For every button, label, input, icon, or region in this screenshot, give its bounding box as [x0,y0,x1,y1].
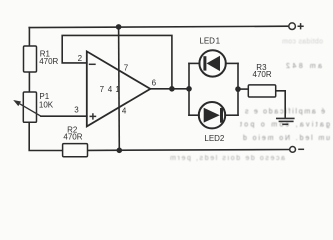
svg-text:4: 4 [122,106,127,115]
svg-text:4: 4 [108,85,113,94]
svg-text:LED: LED [199,37,215,46]
svg-text:2: 2 [220,134,225,143]
svg-text:470R: 470R [63,133,82,142]
svg-text:LED: LED [204,134,220,143]
svg-text:um led. No meio d: um led. No meio d [243,135,330,142]
svg-text:1: 1 [115,85,120,94]
svg-text:7: 7 [124,64,129,73]
svg-text:10K: 10K [39,101,54,110]
svg-text:470R: 470R [39,57,58,66]
svg-text:470R: 470R [253,70,272,79]
svg-text:6: 6 [152,79,157,88]
svg-text:1: 1 [216,37,221,46]
svg-text:obtidas com: obtidas com [282,38,323,45]
svg-text:7: 7 [100,85,105,94]
svg-text:3: 3 [74,105,79,114]
svg-text:2: 2 [78,54,83,63]
